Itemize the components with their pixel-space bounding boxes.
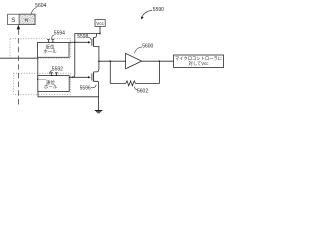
transistor 5596 drain lead bbox=[94, 61, 99, 72]
leader 5596 bbox=[91, 85, 96, 88]
svg-text:5592: 5592 bbox=[52, 66, 63, 72]
leader 5592 bbox=[50, 71, 53, 75]
junction Vcc bbox=[99, 33, 101, 35]
svg-text:5594: 5594 bbox=[54, 30, 65, 36]
arrow toward magnet bbox=[17, 25, 20, 30]
leader 5604 bbox=[31, 7, 36, 13]
magnet axis phantom line bbox=[17, 29, 19, 105]
transistor 5598 channel bar bbox=[93, 37, 95, 47]
dashed enclosure upper bbox=[10, 38, 70, 58]
feedback tap junction bbox=[109, 60, 111, 62]
transistor 5596 gate bar bbox=[91, 73, 93, 80]
svg-text:5600: 5600 bbox=[142, 43, 153, 49]
svg-text:ホール: ホール bbox=[43, 49, 57, 54]
leader 5594 bbox=[52, 35, 55, 40]
top link wire bbox=[75, 32, 100, 34]
svg-text:5596: 5596 bbox=[80, 85, 91, 91]
feedback left drop bbox=[110, 61, 125, 83]
pin glyph 2 of 5592 bbox=[55, 73, 58, 76]
svg-text:5598: 5598 bbox=[77, 34, 88, 40]
junction on hall box 5592 edge bbox=[37, 79, 39, 81]
hall sensor box 5594 bbox=[38, 42, 70, 57]
svg-text:N: N bbox=[25, 18, 29, 24]
pin glyph 1 of 5594 bbox=[47, 40, 50, 43]
junction bus upper gate bbox=[74, 42, 75, 43]
wire node to op-amp bbox=[99, 60, 126, 62]
svg-text:5590: 5590 bbox=[153, 7, 164, 13]
svg-text:S: S bbox=[11, 18, 15, 24]
Vcc drop wire bbox=[99, 26, 101, 33]
svg-text:5604: 5604 bbox=[35, 3, 46, 9]
junction bus to lower gate bbox=[72, 77, 74, 79]
transistor 5598 source lead bbox=[94, 46, 99, 61]
gate wire lower bbox=[69, 76, 89, 78]
internal stub 5592 bbox=[38, 78, 47, 80]
leader 5598 bbox=[88, 37, 91, 40]
pull-up bus vertical bbox=[72, 33, 75, 77]
output wire bbox=[142, 60, 174, 62]
hall sensor box 5592 bbox=[38, 76, 69, 92]
leader 5600 bbox=[134, 47, 142, 53]
resistor 5602 bbox=[126, 81, 136, 86]
transistor 5598 gate bar bbox=[91, 39, 93, 46]
svg-text:5602: 5602 bbox=[137, 89, 148, 95]
magnet 5604 bbox=[8, 14, 35, 24]
node junction bbox=[98, 60, 100, 62]
ground bbox=[95, 111, 103, 113]
op-amp 5600 bbox=[126, 53, 142, 68]
dashed enclosure lower bbox=[14, 73, 71, 94]
transistor 5596 channel bar bbox=[93, 72, 95, 82]
arrow 5590 bbox=[142, 10, 152, 17]
leader 5602 bbox=[135, 87, 138, 90]
gate wire upper bbox=[69, 41, 89, 43]
svg-text:対してVcc: 対してVcc bbox=[189, 60, 210, 66]
gate arrow upper bbox=[88, 41, 91, 43]
wire left lead bbox=[0, 58, 38, 79]
svg-text:Vcc: Vcc bbox=[96, 21, 104, 26]
transistor 5598 drain lead bbox=[94, 34, 97, 38]
pin glyph 1 of 5592 bbox=[50, 73, 53, 76]
svg-text:ホール: ホール bbox=[44, 84, 58, 89]
microcontroller box bbox=[174, 55, 224, 67]
ground link wire bbox=[38, 92, 99, 97]
transistor 5596 source lead bbox=[94, 81, 99, 110]
Vcc box bbox=[95, 20, 105, 27]
gate arrow lower bbox=[88, 76, 91, 78]
output junction bbox=[159, 60, 161, 62]
pin glyph 2 of 5594 bbox=[52, 40, 55, 43]
feedback right riser bbox=[136, 61, 160, 83]
